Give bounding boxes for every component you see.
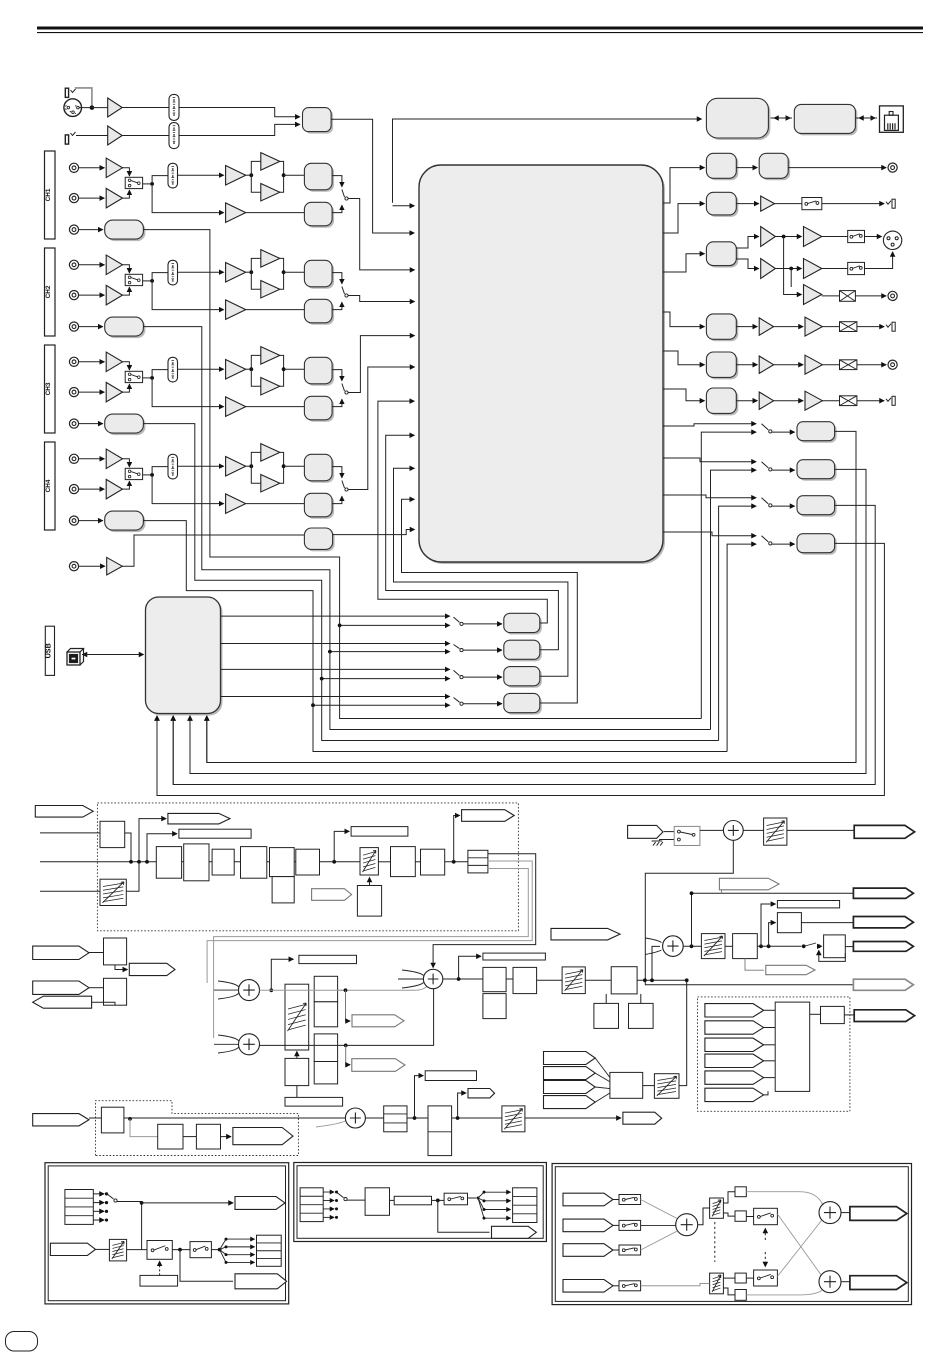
tag cue out xyxy=(129,963,175,975)
tag fx out xyxy=(462,810,515,822)
switch master R xyxy=(848,262,865,274)
wire xyxy=(246,271,252,273)
page header rule xyxy=(37,27,923,30)
wire xyxy=(865,236,882,238)
XLR female connector xyxy=(64,99,82,117)
node xyxy=(150,473,154,477)
mic label xyxy=(425,1071,476,1081)
tag cue select in xyxy=(544,1081,596,1094)
amp phono CH1 xyxy=(106,188,122,208)
node xyxy=(140,1201,144,1205)
fx input block xyxy=(100,821,125,847)
amp master L2 xyxy=(804,227,822,247)
fx block 7 xyxy=(391,847,416,877)
tag talkover out xyxy=(233,1128,293,1145)
process block CH4 b xyxy=(306,495,334,519)
wire xyxy=(736,167,757,169)
input select switch CH2 xyxy=(125,274,142,285)
process block CH4 a xyxy=(306,456,334,483)
wire xyxy=(822,400,839,402)
tag xf out R xyxy=(850,1276,907,1290)
wire xyxy=(774,117,792,119)
RCA phono in CH1 xyxy=(69,194,78,203)
meter block xyxy=(821,1006,845,1023)
mic 1/4 jack connector xyxy=(65,88,68,97)
RCA digital in CH2 xyxy=(69,260,78,269)
wire xyxy=(179,108,300,117)
wire xyxy=(700,829,724,831)
wire xyxy=(142,1202,233,1204)
wire xyxy=(478,1192,511,1198)
usb rec block xyxy=(506,695,542,714)
wire xyxy=(79,488,105,490)
wire xyxy=(332,273,342,284)
summing amp xf in xyxy=(676,1214,698,1236)
label B xyxy=(394,1196,431,1205)
wire xyxy=(761,904,775,946)
node xyxy=(643,978,647,982)
node mic junction xyxy=(90,105,95,110)
tag master lvl xyxy=(766,965,815,974)
wire xyxy=(698,1208,710,1225)
wire booth return xyxy=(645,840,853,984)
box B outer frame xyxy=(294,1163,547,1242)
wire xyxy=(764,1009,776,1011)
amp CH4 c xyxy=(261,474,280,492)
wire xyxy=(79,294,105,296)
wire xyxy=(855,117,875,119)
wire xyxy=(178,271,224,273)
amp CH3 d xyxy=(226,397,246,417)
RCA digital in CH4 xyxy=(69,454,78,463)
wire xyxy=(246,503,305,505)
master block f xyxy=(824,935,846,958)
wire xyxy=(93,1219,104,1221)
wire xyxy=(822,268,848,270)
svg-text:CH1: CH1 xyxy=(45,188,52,201)
tag master digital out xyxy=(853,888,913,898)
wire xyxy=(123,168,130,176)
RCA usb in CH4 xyxy=(69,516,78,525)
wire dsp out xyxy=(663,532,756,536)
wire out loop xyxy=(173,505,875,784)
switch xf bottom xyxy=(754,1270,778,1286)
fx block 3 xyxy=(212,849,234,875)
wire xyxy=(141,1203,143,1250)
wire xyxy=(332,399,342,406)
wire usb to dsp xyxy=(394,468,568,676)
wire xyxy=(143,474,153,476)
wire dsp out xyxy=(663,312,704,327)
rec block b xyxy=(761,155,790,180)
usb out block xyxy=(799,462,837,481)
wire xyxy=(251,258,260,289)
booth level fader xyxy=(764,818,787,845)
input terminals B xyxy=(300,1188,323,1222)
wire xyxy=(736,259,758,269)
rec select switch xyxy=(762,424,769,430)
wire xyxy=(774,364,803,366)
wire xyxy=(613,1249,619,1251)
wire xyxy=(723,1192,735,1203)
wire xyxy=(89,987,104,989)
tag fx in label xyxy=(35,806,93,818)
aux block xyxy=(306,530,334,551)
master level fader xyxy=(562,967,585,994)
wire usb playback xyxy=(221,615,450,617)
usb rec select switch xyxy=(454,617,460,622)
tag phones cue xyxy=(33,946,89,959)
wire xyxy=(736,364,757,366)
wire xyxy=(445,861,468,863)
summing amp cue R xyxy=(239,1034,260,1055)
wire xyxy=(463,703,502,705)
process block CH2 b xyxy=(306,301,334,325)
fader A xyxy=(109,1239,126,1261)
wire xyxy=(764,1060,776,1062)
wire xyxy=(679,980,687,1085)
fx param label xyxy=(351,827,408,837)
cue level fader xyxy=(654,1074,679,1099)
node xyxy=(137,860,141,864)
wire xyxy=(96,1248,110,1250)
wire xyxy=(220,1250,255,1255)
wire xyxy=(613,1224,619,1226)
summing amp booth xyxy=(723,821,743,841)
usb send block CH1 xyxy=(107,222,146,241)
sampler block xyxy=(104,978,127,1005)
amp CH2 d xyxy=(226,300,246,320)
fx block 8 xyxy=(421,849,445,875)
wire phones R xyxy=(260,989,434,1046)
wire xyxy=(152,378,224,407)
wire xyxy=(506,978,513,980)
phones block c xyxy=(314,1034,337,1062)
input select switch CH1 xyxy=(125,177,142,188)
phones label 2 xyxy=(285,1097,343,1106)
wire xyxy=(478,1198,511,1218)
wire xyxy=(280,355,284,386)
master trim fader xyxy=(701,934,725,959)
wire xyxy=(595,1087,610,1089)
wire xyxy=(788,167,886,169)
node xyxy=(311,703,315,707)
dashed control xyxy=(159,1261,161,1275)
attenuator mic1 xyxy=(169,94,179,120)
tag master out 2 xyxy=(853,979,913,990)
dashed arrow up xyxy=(764,1229,766,1241)
wire xyxy=(125,833,131,862)
wire rec send xyxy=(313,705,727,751)
tag cue out xyxy=(623,1112,662,1124)
node xyxy=(650,978,654,982)
wire xyxy=(652,946,660,980)
RCA usb in CH3 xyxy=(69,419,78,428)
wire xyxy=(152,273,168,281)
wire xyxy=(332,467,342,478)
wire xyxy=(40,890,100,892)
tag xf out L xyxy=(850,1207,907,1221)
tag C in xyxy=(563,1244,613,1257)
wire xyxy=(172,1249,190,1251)
wire xyxy=(246,368,252,370)
wire dsp out xyxy=(663,424,756,426)
talkover block xyxy=(708,100,770,140)
wire xyxy=(280,161,284,192)
wire xyxy=(822,364,839,366)
rec select switch xyxy=(762,498,769,504)
DSP main block xyxy=(421,167,665,564)
wire dsp out xyxy=(663,495,756,498)
usb rec block xyxy=(506,669,542,688)
amp line CH1 xyxy=(106,158,122,178)
wire xyxy=(801,922,853,924)
channel bracket CH2 xyxy=(45,248,56,336)
wire xyxy=(438,1200,490,1232)
wire fx return b xyxy=(207,861,532,983)
amp aux xyxy=(107,557,123,575)
wire xyxy=(723,1277,735,1279)
wire xyxy=(246,465,252,467)
RCA aux in xyxy=(69,562,78,571)
wire xyxy=(637,979,687,981)
node xyxy=(178,1248,182,1252)
wire rec send xyxy=(330,652,711,730)
page number badge xyxy=(6,1332,38,1352)
node xyxy=(269,988,273,992)
mic line jack connector xyxy=(65,135,68,144)
master block xyxy=(708,244,738,268)
wire usb playback xyxy=(221,668,450,670)
node xyxy=(782,235,786,239)
node xyxy=(802,944,806,948)
wire xyxy=(822,295,840,297)
wire return feed xyxy=(701,432,756,718)
wire xyxy=(478,1198,511,1201)
amp CH1 c xyxy=(261,183,280,201)
tag C in xyxy=(563,1193,613,1206)
wire xyxy=(126,862,139,892)
wire xyxy=(775,236,801,238)
dashed arrow down xyxy=(764,1252,766,1267)
node xyxy=(413,1116,417,1120)
wire xyxy=(284,271,305,273)
usb connector icon xyxy=(67,649,84,666)
wire xyxy=(93,1193,104,1195)
usb rec select switch xyxy=(454,670,460,675)
ground symbol xyxy=(652,841,663,846)
tag booth out xyxy=(854,825,914,838)
wire xyxy=(855,295,886,297)
amp CH2 c xyxy=(261,280,280,298)
wire xyxy=(123,190,130,198)
master block a xyxy=(483,967,506,991)
wire rec send xyxy=(340,625,702,718)
wire xyxy=(130,1119,158,1137)
RCA usb in CH1 xyxy=(69,225,78,234)
wire xyxy=(123,287,130,295)
wire xyxy=(271,959,293,990)
wire xyxy=(817,945,822,947)
tag fx send xyxy=(168,813,230,824)
wire xyxy=(127,1249,147,1251)
amp CH3 c xyxy=(261,377,280,395)
phones block d xyxy=(314,1062,337,1084)
link connector icon xyxy=(880,106,904,132)
wire xyxy=(664,831,677,833)
wire xyxy=(79,167,105,169)
amp line CH2 xyxy=(106,255,122,274)
amp CH1 b xyxy=(261,153,280,171)
wire xyxy=(415,861,420,863)
label A xyxy=(140,1275,178,1286)
RCA rec out xyxy=(888,163,897,172)
wire xyxy=(117,1201,142,1203)
wire xyxy=(525,1117,621,1119)
RCA session out xyxy=(888,360,897,369)
amp CH2 a xyxy=(226,262,246,282)
master block b xyxy=(513,967,537,993)
master block a2 xyxy=(483,994,506,1019)
wire xyxy=(746,1192,822,1204)
wire xyxy=(178,465,224,467)
node xyxy=(789,267,793,271)
wire xyxy=(443,978,483,980)
tag meter in xyxy=(705,1071,764,1084)
node xyxy=(690,944,694,948)
wire xyxy=(123,265,130,273)
usb send block CH3 xyxy=(107,416,146,435)
wire xyxy=(296,1052,298,1059)
tag cue select in xyxy=(544,1067,596,1080)
wire xyxy=(79,264,105,266)
wire xyxy=(745,959,764,971)
wire dsp out xyxy=(663,351,704,365)
tag fx mode xyxy=(312,889,352,901)
wire xyxy=(79,107,108,109)
wire xyxy=(743,829,763,831)
summing amp mic xyxy=(345,1108,365,1128)
input select switch CH3 xyxy=(125,371,142,382)
node xyxy=(328,650,332,654)
wire xyxy=(251,161,260,192)
wire xyxy=(452,1117,502,1119)
wire phones L xyxy=(260,989,346,991)
usb out block xyxy=(799,536,837,555)
wire usb in xyxy=(206,716,208,763)
wire xyxy=(764,1027,776,1029)
phones block b xyxy=(314,1002,337,1027)
switch xf top xyxy=(754,1208,778,1224)
wire xyxy=(692,893,854,946)
wire xyxy=(79,391,105,393)
tag meter in xyxy=(705,1021,764,1034)
wire xyxy=(790,269,792,288)
wire xyxy=(122,535,304,566)
wire xyxy=(772,469,795,471)
xf gain a1 xyxy=(735,1187,746,1197)
transformer master xyxy=(840,291,856,302)
wire xyxy=(365,1117,383,1119)
box C outer frame xyxy=(552,1164,911,1305)
wire xyxy=(332,205,342,212)
wire xyxy=(736,203,758,205)
phones block a xyxy=(314,976,337,1002)
wire xyxy=(764,1077,776,1079)
phones mix fader xyxy=(285,984,309,1050)
wire xyxy=(246,212,305,214)
wire xyxy=(152,281,224,310)
process block CH3 a xyxy=(306,359,334,386)
tag meter in xyxy=(705,1088,764,1101)
wire xyxy=(152,475,224,504)
wire xyxy=(772,543,795,545)
wire CH1 to dsp xyxy=(348,199,415,270)
wire xyxy=(284,465,305,467)
wire xyxy=(468,1197,477,1199)
tag master out xyxy=(853,942,913,952)
wire xyxy=(641,1283,710,1285)
RCA usb in CH2 xyxy=(69,322,78,331)
wire fx return c xyxy=(214,869,529,1039)
phones jack 2 xyxy=(892,199,895,208)
svg-text:USB: USB xyxy=(44,643,53,658)
wire xyxy=(284,368,305,370)
XLR male master out xyxy=(883,231,901,249)
amp master R2 xyxy=(804,259,822,279)
master label xyxy=(483,953,546,960)
tag mic lvl xyxy=(468,1089,495,1098)
RCA phono in CH2 xyxy=(69,291,78,300)
source selector CH1 xyxy=(342,190,345,198)
wire xyxy=(332,176,342,187)
wire usb in xyxy=(172,716,174,785)
wire xyxy=(323,1208,334,1210)
summing amp master xyxy=(663,936,684,957)
attenuator CH3 xyxy=(168,357,178,382)
wire xyxy=(463,676,502,678)
wire xyxy=(296,1086,298,1098)
wire xyxy=(220,1250,255,1263)
tag meter in xyxy=(705,1004,764,1017)
wire xyxy=(378,861,390,863)
wire xyxy=(775,268,801,270)
switch A3 xyxy=(190,1242,211,1258)
tag meter in xyxy=(705,1038,764,1051)
wire xyxy=(76,135,108,137)
master limiter xyxy=(611,967,637,994)
amp CH3 a xyxy=(226,359,246,379)
wire xyxy=(251,355,260,386)
switch C xyxy=(619,1220,641,1230)
wire xyxy=(746,1290,822,1295)
wire fx return a xyxy=(433,854,536,968)
wire xyxy=(143,183,153,185)
wire out loop xyxy=(157,543,884,795)
wire xyxy=(79,565,105,567)
session out block xyxy=(708,354,738,379)
xf gain a2 xyxy=(735,1211,746,1221)
node xyxy=(690,891,694,895)
wire xyxy=(390,1199,395,1201)
wire xyxy=(822,203,884,205)
wire xyxy=(220,1239,255,1250)
usb sound card xyxy=(148,599,223,716)
wire xyxy=(79,361,105,363)
tag C in xyxy=(563,1280,613,1293)
talkover dotted frame xyxy=(96,1101,299,1156)
source selector CH4 xyxy=(342,481,345,489)
